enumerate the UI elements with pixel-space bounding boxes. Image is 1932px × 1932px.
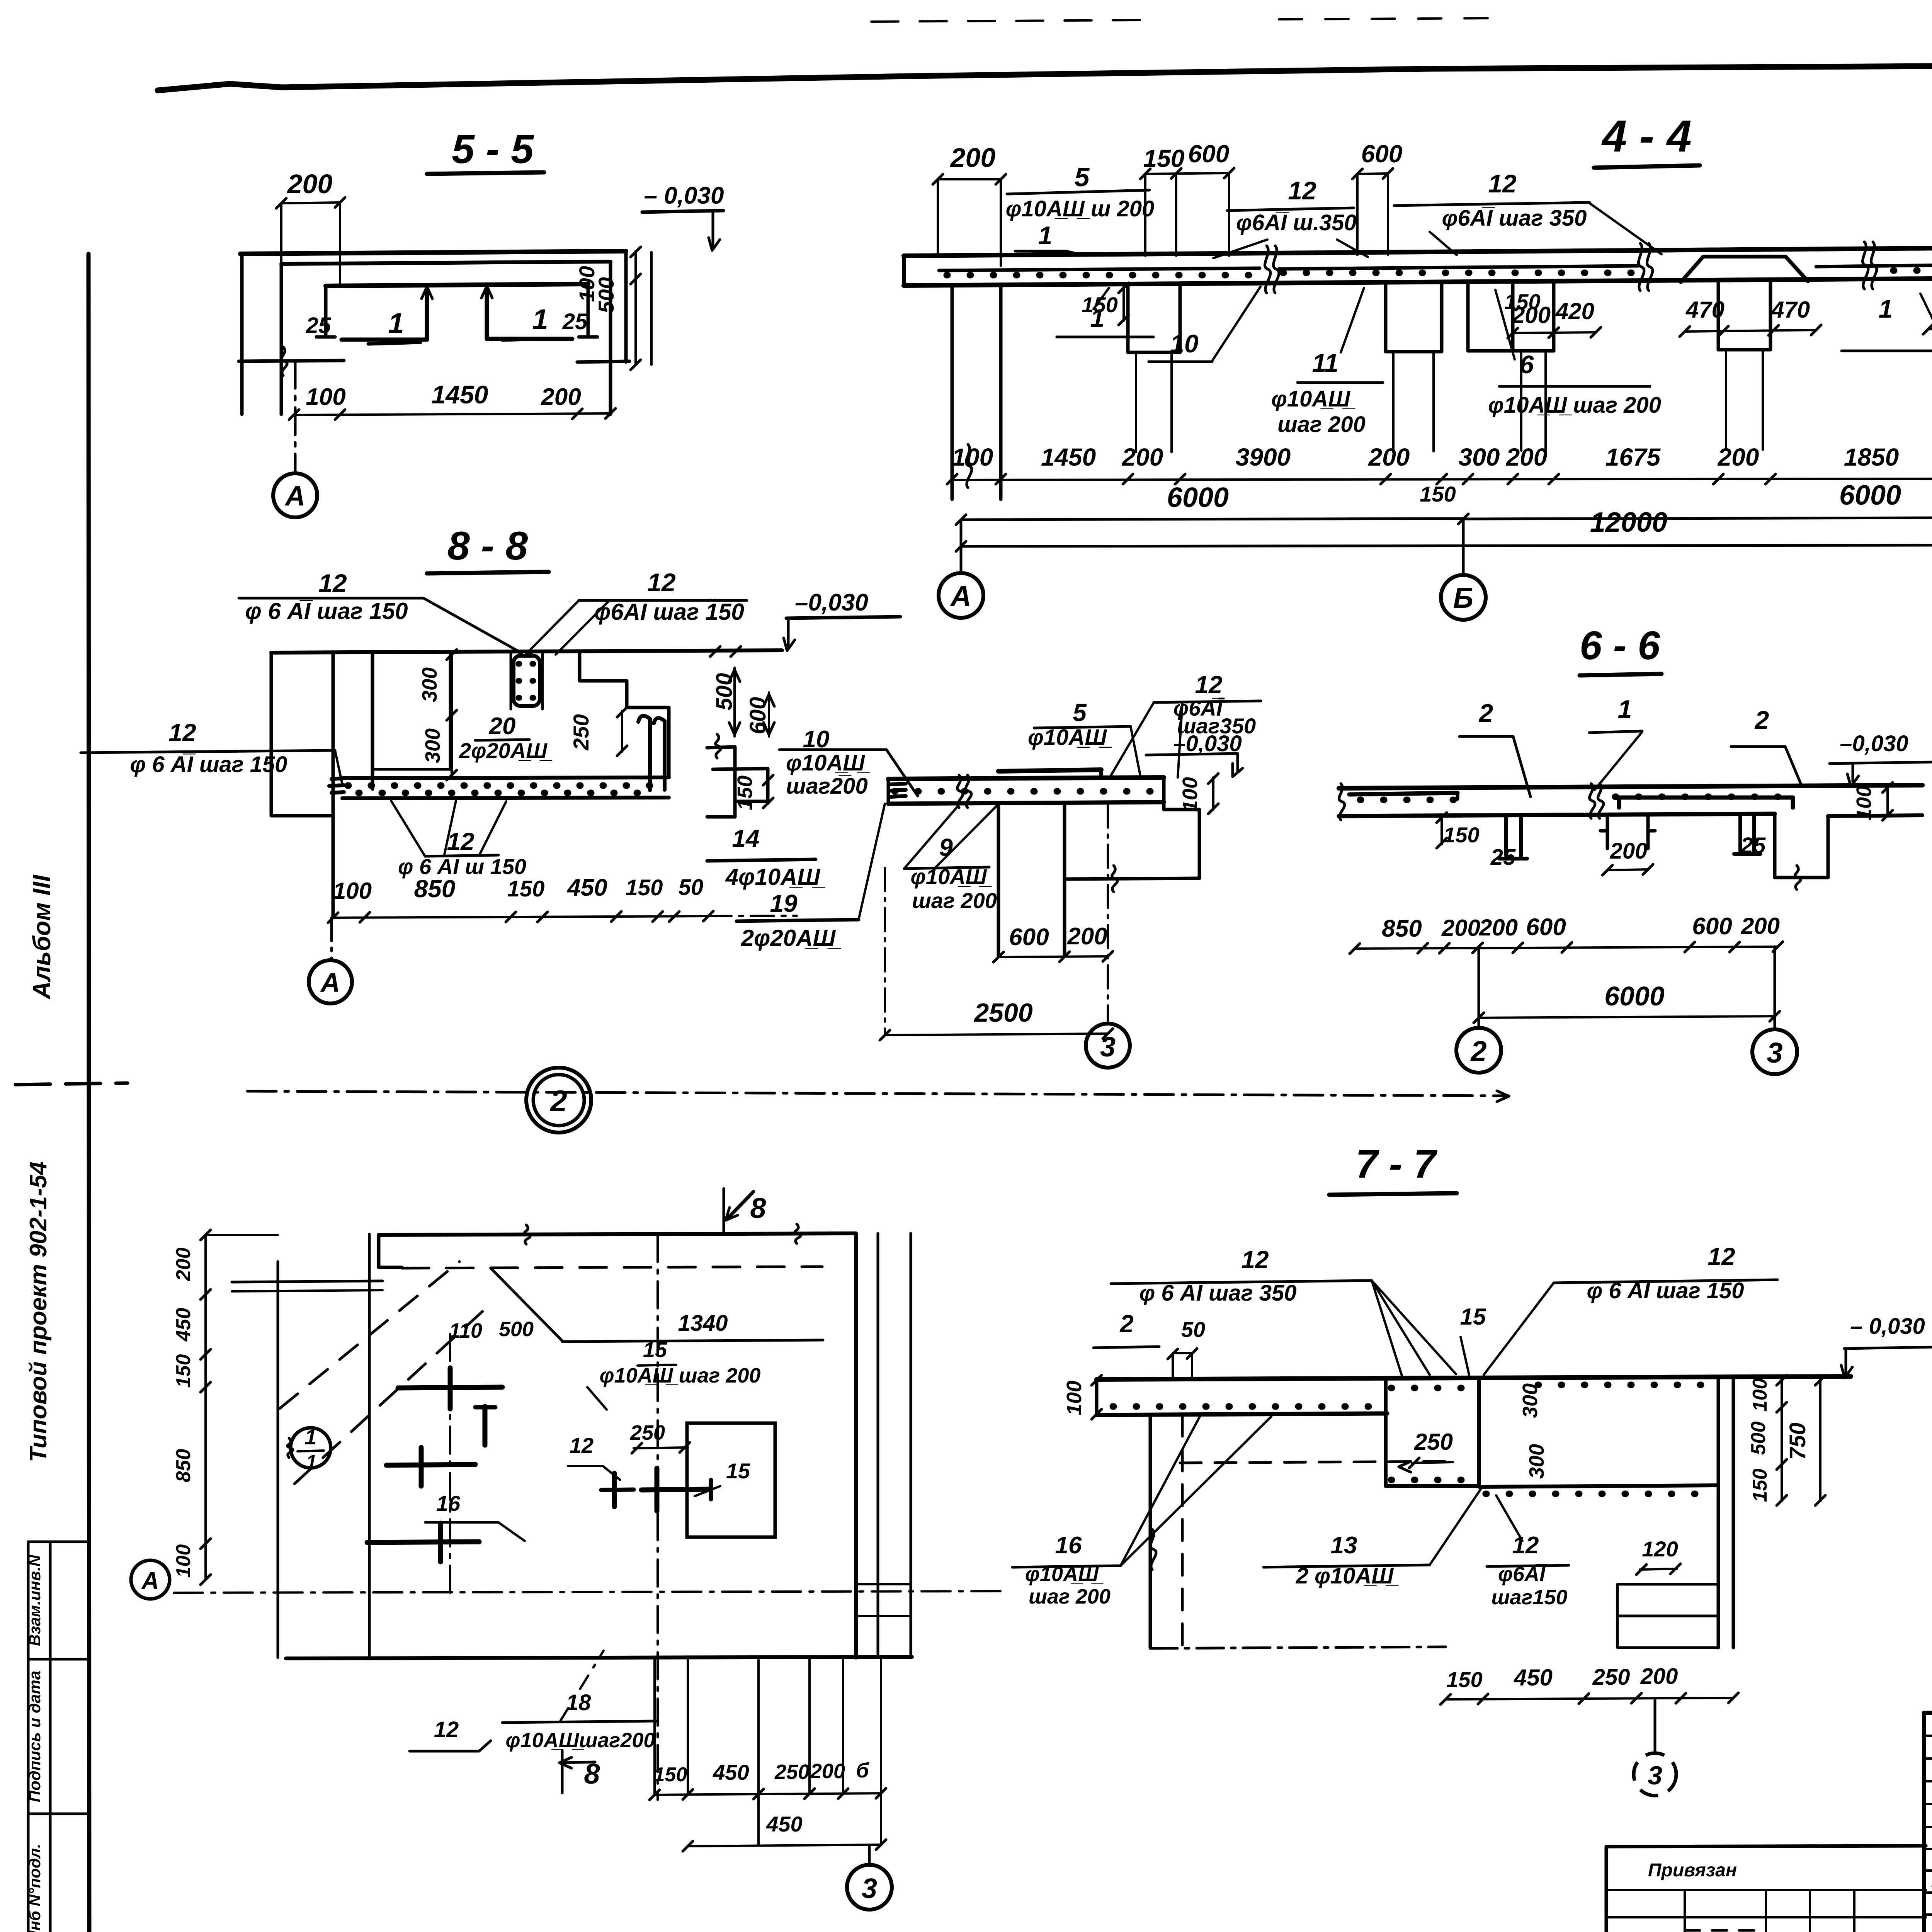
plan right wall lines <box>854 1233 858 1658</box>
6-6 U-bar 1 <box>1499 816 1527 859</box>
svg-text:– 0,030: – 0,030 <box>644 182 724 209</box>
3-3 slab left hooks <box>887 779 890 804</box>
sheet left border <box>88 254 89 1932</box>
svg-text:12: 12 <box>1488 169 1517 198</box>
svg-text:2φ20А̲Ш̲: 2φ20А̲Ш̲ <box>459 738 552 763</box>
svg-text:2: 2 <box>1754 706 1769 734</box>
8-8 band dots <box>348 782 665 789</box>
6-6 dim 100 rot <box>1886 786 1889 816</box>
svg-text:6 - 6: 6 - 6 <box>1580 623 1660 668</box>
svg-text:200: 200 <box>172 1248 195 1282</box>
4-4 slab rebar line <box>939 268 1260 270</box>
svg-text:450: 450 <box>566 874 607 901</box>
svg-text:150: 150 <box>733 776 757 810</box>
5-5 top slab <box>240 251 626 254</box>
axis 2 dash-dot line <box>247 1091 1509 1096</box>
svg-text:150: 150 <box>172 1354 195 1388</box>
svg-text:3: 3 <box>1648 1761 1662 1790</box>
svg-text:12: 12 <box>318 569 347 597</box>
4-4 wall stub 4 <box>1717 281 1720 350</box>
svg-text:2: 2 <box>549 1084 567 1118</box>
svg-text:50: 50 <box>1181 1317 1205 1342</box>
svg-text:200: 200 <box>1640 1664 1678 1689</box>
axis circle B (4-4) <box>1462 519 1465 575</box>
svg-text:6000: 6000 <box>1604 981 1665 1011</box>
svg-text:600: 600 <box>745 697 770 735</box>
svg-text:Подпись и дата: Подпись и дата <box>26 1671 44 1802</box>
axis circle A (plan) <box>131 1560 170 1599</box>
svg-text:3: 3 <box>1767 1037 1782 1069</box>
svg-text:470: 470 <box>1771 297 1810 323</box>
4-4 dim 6000 left <box>961 519 1463 520</box>
svg-text:12: 12 <box>447 828 474 855</box>
title block left small table <box>1606 1889 1926 1891</box>
8-8 step right of column <box>580 652 669 777</box>
5-5 inner band <box>326 284 588 286</box>
axis circle 3 (plan bottom) <box>847 1865 892 1910</box>
svg-text:1: 1 <box>1038 221 1053 250</box>
svg-text:φ10А̲Ш̲ ш 200: φ10А̲Ш̲ ш 200 <box>1006 196 1155 221</box>
svg-text:φ10А̲Ш̲: φ10А̲Ш̲ <box>911 864 992 889</box>
7-7 beam box <box>1386 1379 1479 1486</box>
svg-text:18: 18 <box>566 1690 591 1715</box>
svg-text:φ10А̲Ш̲: φ10А̲Ш̲ <box>786 750 870 776</box>
svg-text:250: 250 <box>569 714 593 750</box>
6-6 right step <box>1775 814 1828 878</box>
svg-text:12: 12 <box>647 568 676 597</box>
8-8 rebar column <box>514 656 540 706</box>
6-6 axis 3 line <box>1774 947 1776 1028</box>
8-8 dim 300 300 rot <box>451 653 453 776</box>
3-3 slab dots <box>895 788 1159 795</box>
4-4 slab rebar dots <box>947 272 1256 279</box>
svg-text:600: 600 <box>1361 140 1403 168</box>
7-7 hidden vertical dashed <box>1181 1415 1184 1645</box>
5-5 axis line <box>294 361 297 472</box>
svg-text:1340: 1340 <box>678 1311 728 1336</box>
svg-text:850: 850 <box>1382 915 1422 942</box>
svg-text:300: 300 <box>1459 443 1500 471</box>
svg-text:20: 20 <box>489 713 516 740</box>
plan section mark 8 bottom <box>561 1750 564 1793</box>
svg-text:1675: 1675 <box>1605 443 1661 471</box>
4-4 wall stub 1 <box>1126 285 1130 352</box>
axis circle 2 (6-6) <box>1456 1028 1501 1073</box>
svg-text:12: 12 <box>434 1717 459 1742</box>
sheet top border <box>158 65 1932 90</box>
plan rebar cross 3 <box>367 1542 479 1543</box>
svg-text:5: 5 <box>1075 162 1090 192</box>
8-8 dim 250 rot <box>621 711 623 752</box>
5-5 right dim 100 500 <box>634 251 637 365</box>
svg-text:200: 200 <box>541 384 581 410</box>
svg-text:100: 100 <box>1852 786 1876 820</box>
8-8 bottom dim chain <box>333 916 708 918</box>
svg-text:4 - 4: 4 - 4 <box>1601 111 1692 161</box>
top faint dashed line <box>871 20 1140 22</box>
axis circle A (4-4) <box>960 520 963 573</box>
svg-text:150: 150 <box>1443 823 1479 847</box>
title block small grid <box>1926 1735 1932 1737</box>
svg-text:3: 3 <box>862 1873 877 1904</box>
sidebar label inv <box>26 1844 44 1932</box>
svg-text:100: 100 <box>172 1544 195 1578</box>
svg-text:300: 300 <box>1525 1444 1548 1479</box>
8-8 outer box left <box>270 653 273 816</box>
svg-text:А: А <box>141 1568 159 1594</box>
6-6 mid rebar bar <box>1619 798 1793 808</box>
sidebar label vzam <box>26 1554 44 1646</box>
3-3 right step <box>1164 777 1199 878</box>
svg-text:200: 200 <box>1122 443 1163 471</box>
8-8 column shaft <box>510 652 512 709</box>
svg-text:1: 1 <box>304 1425 316 1449</box>
7-7 lower band right <box>1479 1485 1718 1487</box>
8-8 band left hooks <box>332 778 344 779</box>
plan opening rect <box>687 1423 775 1537</box>
svg-text:200: 200 <box>287 169 333 199</box>
plan bottom dim 450 <box>688 1845 881 1846</box>
svg-text:2 φ10А̲Ш̲: 2 φ10А̲Ш̲ <box>1296 1563 1399 1588</box>
7-7 right dim stack 2 <box>1819 1379 1821 1501</box>
title block outer <box>1924 1711 1932 1715</box>
plan rebar tee 1 <box>483 1406 488 1445</box>
7-7 right dim stack 1 <box>1781 1379 1783 1501</box>
svg-text:φ 6 А̅I шаг 350: φ 6 А̅I шаг 350 <box>1139 1281 1296 1306</box>
svg-text:шаг 200: шаг 200 <box>912 888 997 913</box>
svg-text:150: 150 <box>1504 289 1540 314</box>
7-7 slab bottom left <box>1097 1413 1387 1415</box>
svg-text:1850: 1850 <box>1844 443 1899 471</box>
svg-text:А: А <box>320 968 340 998</box>
svg-text:250: 250 <box>1592 1665 1630 1690</box>
svg-text:110: 110 <box>449 1319 482 1342</box>
svg-text:600: 600 <box>1188 140 1230 168</box>
8-8 band top <box>342 777 669 778</box>
plan solid diagonal <box>491 1268 562 1341</box>
svg-text:А: А <box>950 580 971 612</box>
svg-text:300: 300 <box>421 728 444 763</box>
svg-text:12: 12 <box>1708 1243 1735 1270</box>
svg-text:100: 100 <box>1063 1381 1086 1415</box>
3-3 axis line <box>1107 804 1109 1021</box>
svg-text:–0,030: –0,030 <box>795 589 868 616</box>
svg-text:500: 500 <box>1747 1422 1770 1455</box>
svg-text:Типовой проект 902-1-54: Типовой проект 902-1-54 <box>25 1162 52 1462</box>
axis circle A (5-5) <box>273 473 317 517</box>
svg-text:Альбом III: Альбом III <box>28 874 56 1000</box>
svg-text:шаг 200: шаг 200 <box>1277 412 1366 437</box>
svg-text:25: 25 <box>306 313 331 338</box>
svg-text:100: 100 <box>1179 777 1202 812</box>
svg-text:φ10А̲Ш̲: φ10А̲Ш̲ <box>1271 386 1355 412</box>
axis circle 3 dashed (7-7) <box>1634 1753 1676 1796</box>
plan bottom dim chain <box>655 1793 881 1795</box>
svg-text:1450: 1450 <box>1041 443 1096 471</box>
plan top edge <box>379 1233 856 1235</box>
svg-text:25: 25 <box>1740 833 1766 858</box>
sidebar divider dash <box>15 1083 128 1085</box>
svg-text:200: 200 <box>1506 443 1548 471</box>
svg-text:Б: Б <box>1453 582 1473 614</box>
svg-text:1: 1 <box>306 1451 317 1473</box>
svg-text:25: 25 <box>562 309 588 334</box>
4-4 top slab lines <box>904 244 1932 256</box>
svg-text:15: 15 <box>726 1459 750 1483</box>
svg-text:Привязан: Привязан <box>1648 1860 1737 1881</box>
svg-text:2: 2 <box>1119 1310 1134 1338</box>
svg-text:200: 200 <box>950 143 996 173</box>
plan dashed diagonal 2 <box>294 1306 489 1484</box>
8-8 axis line <box>330 918 333 959</box>
4-4 break 3 <box>1862 242 1868 289</box>
5-5 bar 1 left <box>342 288 427 340</box>
svg-text:12: 12 <box>570 1433 594 1458</box>
svg-text:470: 470 <box>1685 297 1725 323</box>
svg-text:3900: 3900 <box>1236 443 1291 471</box>
svg-text:Взам.инв.N: Взам.инв.N <box>26 1554 44 1646</box>
5-5 bar 1 right <box>487 287 572 339</box>
svg-text:4φ10А̲Ш̲: 4φ10А̲Ш̲ <box>725 864 825 890</box>
svg-text:φ10А̲Ш̲шаг200: φ10А̲Ш̲шаг200 <box>506 1729 655 1752</box>
svg-text:Инб N°подл.: Инб N°подл. <box>26 1844 44 1932</box>
svg-text:1: 1 <box>1879 294 1893 323</box>
4-4 thickening trapezoid <box>1681 257 1808 282</box>
svg-text:15: 15 <box>643 1337 667 1362</box>
7-7 dim 100 rot <box>1095 1379 1099 1415</box>
7-7 label 300 rot lower <box>1525 1444 1548 1479</box>
svg-text:15: 15 <box>1460 1304 1486 1330</box>
svg-text:100: 100 <box>306 384 345 410</box>
svg-text:2: 2 <box>1478 699 1493 727</box>
svg-text:шаг2̅00: шаг2̅00 <box>786 774 868 799</box>
svg-text:250: 250 <box>630 1421 665 1444</box>
svg-text:6000: 6000 <box>1167 482 1229 513</box>
7-7 left lower wall <box>1149 1415 1152 1648</box>
svg-text:500: 500 <box>712 673 737 711</box>
3-3 top rebar bar <box>998 770 1101 771</box>
plan axis vertical dash-dot 2 <box>449 1334 451 1597</box>
plan axis horiz dash-dot <box>174 1591 1005 1593</box>
svg-text:φ6А̅I ш.350: φ6А̅I ш.350 <box>1236 210 1357 235</box>
6-6 axis 2 line <box>1478 949 1480 1026</box>
svg-text:250: 250 <box>774 1760 810 1784</box>
svg-text:φ 6 А̅I шаг 150: φ 6 А̅I шаг 150 <box>130 752 287 777</box>
svg-text:φ 6 А̅I шаг 150: φ 6 А̅I шаг 150 <box>1587 1278 1744 1303</box>
6-6 right slab bottom <box>1828 815 1922 816</box>
svg-text:шаг150: шаг150 <box>1492 1586 1568 1609</box>
svg-text:1: 1 <box>388 307 404 339</box>
4-4 break 1 <box>1265 246 1270 293</box>
3-3 wall dim <box>998 956 1108 957</box>
4-4 wall stub 3 with step <box>1466 283 1470 351</box>
3-3 wall <box>997 804 1000 956</box>
svg-text:50: 50 <box>679 875 704 900</box>
3-3 break <box>957 775 963 808</box>
sidebar text Album III <box>28 874 56 1000</box>
5-5 bottom dim chain <box>294 413 611 415</box>
svg-text:100: 100 <box>1749 1378 1771 1412</box>
svg-text:14: 14 <box>732 825 759 852</box>
svg-text:12: 12 <box>1241 1246 1269 1274</box>
3-3 dim 2500 <box>885 1034 1108 1035</box>
7-7 axis 3 line <box>1654 1699 1656 1752</box>
svg-text:100: 100 <box>952 443 993 471</box>
svg-text:200: 200 <box>1718 443 1759 471</box>
4-4 wall stub 2 <box>1384 284 1388 352</box>
svg-text:2500: 2500 <box>973 998 1032 1027</box>
svg-text:200: 200 <box>1741 913 1780 939</box>
svg-text:300: 300 <box>1519 1383 1542 1418</box>
8-8 band bottom <box>342 798 669 798</box>
8-8 outer box top <box>271 650 782 653</box>
svg-text:12: 12 <box>168 719 196 747</box>
svg-text:25: 25 <box>1490 845 1516 870</box>
8-8 right end shelf <box>707 747 735 748</box>
svg-text:450: 450 <box>1514 1665 1553 1690</box>
svg-text:16: 16 <box>436 1491 461 1515</box>
4-4 dim 6000 right <box>1463 517 1932 519</box>
8-8 wall vertical <box>332 652 335 917</box>
svg-text:φ6А̅I шаг 350: φ6А̅I шаг 350 <box>1442 206 1587 231</box>
svg-text:600: 600 <box>1692 913 1732 940</box>
plan left stub lines <box>232 1281 383 1282</box>
plan rebar small bars <box>612 1473 617 1507</box>
svg-text:300: 300 <box>418 667 441 702</box>
svg-text:φ10А̲Ш̲ шаг 200: φ10А̲Ш̲ шаг 200 <box>600 1364 761 1387</box>
axis circle 1 (plan) <box>291 1428 331 1468</box>
svg-text:12: 12 <box>1288 176 1316 205</box>
7-7 slab dots <box>1113 1403 1379 1410</box>
plan left dim column <box>204 1235 207 1580</box>
6-6 slab dots <box>1360 797 1457 803</box>
svg-text:φ10А̲Ш̲: φ10А̲Ш̲ <box>1028 725 1112 750</box>
sidebar stamp box <box>28 1542 89 1932</box>
svg-text:150: 150 <box>654 1764 687 1786</box>
svg-text:φ 6 А̅I ш 150: φ 6 А̅I ш 150 <box>398 854 526 879</box>
plan left wall lines <box>277 1262 279 1658</box>
svg-text:150: 150 <box>1420 482 1456 506</box>
4-4 left wall <box>951 286 954 499</box>
5-5 right wall <box>609 262 612 414</box>
svg-text:150: 150 <box>1446 1667 1482 1692</box>
plan room line 1340 <box>562 1340 823 1342</box>
svg-text:500: 500 <box>594 277 618 313</box>
svg-text:2: 2 <box>1470 1035 1486 1067</box>
svg-text:600: 600 <box>1526 914 1566 940</box>
svg-text:8: 8 <box>750 1192 766 1224</box>
svg-text:3: 3 <box>1100 1032 1116 1063</box>
plan vertical risers bottom dims <box>653 1660 656 1795</box>
svg-text:200: 200 <box>1610 838 1648 864</box>
5-5 left ledge line <box>239 361 344 361</box>
svg-text:5: 5 <box>1073 699 1087 726</box>
svg-text:12: 12 <box>1512 1532 1539 1559</box>
svg-text:шаг 200: шаг 200 <box>1029 1585 1111 1608</box>
svg-text:2φ20А̲Ш̲: 2φ20А̲Ш̲ <box>741 925 841 951</box>
svg-text:7 - 7: 7 - 7 <box>1355 1142 1437 1187</box>
8-8 dim 500 rot <box>733 668 736 736</box>
8-8 dim 600 rot <box>768 692 770 736</box>
7-7 right wall pair <box>1717 1378 1720 1648</box>
3-3 dim 100 rot <box>1212 777 1214 810</box>
3-3 dim 150 rot <box>767 779 769 804</box>
plan bottom edge <box>286 1657 912 1658</box>
plan dashed diagonal 1 <box>280 1262 459 1408</box>
axis circle A (8-8) <box>309 960 352 1003</box>
svg-text:5 - 5: 5 - 5 <box>452 126 534 172</box>
svg-text:200: 200 <box>1441 915 1480 941</box>
plan rebar tee 2 <box>655 1468 660 1511</box>
svg-text:12000: 12000 <box>1590 507 1667 538</box>
svg-text:А: А <box>284 481 305 512</box>
4-4 dim 12000 <box>961 545 1932 546</box>
svg-text:10: 10 <box>1170 329 1199 358</box>
8-8 inner vertical 1 <box>371 652 374 789</box>
svg-text:200: 200 <box>1067 923 1107 950</box>
svg-text:6000: 6000 <box>1839 480 1901 511</box>
svg-text:850: 850 <box>172 1449 195 1483</box>
8-8 hook bars <box>638 716 650 790</box>
svg-text:16: 16 <box>1055 1532 1082 1559</box>
svg-text:200: 200 <box>1368 443 1410 471</box>
svg-text:12: 12 <box>1195 671 1222 699</box>
plan top inner dashed <box>402 1267 822 1268</box>
4-4 dimension chain <box>952 478 1932 480</box>
sidebar label podpis <box>26 1671 44 1802</box>
svg-text:φ10А̲Ш̲: φ10А̲Ш̲ <box>1025 1563 1104 1586</box>
6-6 dim 6000 <box>1479 1016 1775 1018</box>
svg-text:8 - 8: 8 - 8 <box>447 524 528 568</box>
svg-text:–0,030: –0,030 <box>1840 731 1908 756</box>
svg-text:420: 420 <box>1555 298 1594 324</box>
plan rebar cross 2 <box>386 1464 475 1465</box>
6-6 U-bar 3 <box>1734 815 1760 854</box>
4-4 break 2 <box>1638 243 1644 291</box>
7-7 hidden dashed line <box>1180 1461 1446 1463</box>
svg-text:150: 150 <box>626 875 663 900</box>
7-7 bottom dash axis <box>1150 1647 1446 1648</box>
svg-text:шаг350: шаг350 <box>1177 714 1256 738</box>
7-7 bottom dim chain <box>1446 1698 1733 1699</box>
svg-text:200: 200 <box>1479 915 1518 940</box>
svg-text:500: 500 <box>499 1318 534 1341</box>
svg-text:120: 120 <box>1642 1537 1678 1561</box>
svg-text:φ 6 А̅I шаг 150: φ 6 А̅I шаг 150 <box>245 598 408 624</box>
6-6 bottom dim chain <box>1355 947 1778 949</box>
svg-text:150: 150 <box>1082 293 1117 317</box>
svg-text:200: 200 <box>810 1760 845 1783</box>
svg-text:450: 450 <box>713 1760 749 1784</box>
svg-text:19: 19 <box>770 889 798 917</box>
7-7 label 300 rot upper <box>1519 1383 1542 1418</box>
plan right bottom rungs <box>856 1583 911 1585</box>
svg-text:– 0,030: – 0,030 <box>1850 1314 1925 1339</box>
svg-text:13: 13 <box>1331 1532 1357 1559</box>
svg-text:150: 150 <box>1749 1469 1771 1502</box>
svg-text:850: 850 <box>414 875 456 903</box>
5-5 right ledge line <box>577 361 629 362</box>
sidebar text project <box>25 1162 52 1462</box>
svg-text:φ10А̲Ш̲ шаг 200: φ10А̲Ш̲ шаг 200 <box>1488 393 1661 418</box>
svg-text:φ6А̅Ī: φ6А̅Ī <box>1498 1563 1548 1586</box>
plan rebar cross 1 <box>398 1387 502 1388</box>
title block left attach box <box>1606 1846 1926 1847</box>
svg-text:11: 11 <box>1312 349 1339 377</box>
svg-text:100: 100 <box>333 878 372 904</box>
svg-text:б: б <box>856 1759 869 1782</box>
plan axis vertical dash-dot <box>656 1235 659 1800</box>
